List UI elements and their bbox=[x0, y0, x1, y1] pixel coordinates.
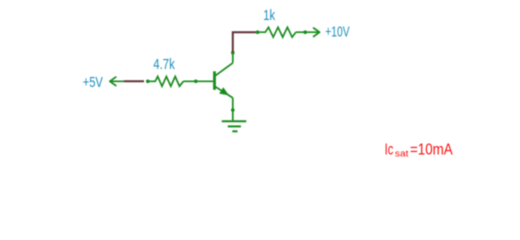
svg-text:=10mA: =10mA bbox=[410, 142, 453, 159]
svg-text:Ic: Ic bbox=[385, 141, 394, 158]
resistor R2 1k bbox=[256, 27, 296, 37]
annotation Icsat=10mA bbox=[385, 141, 453, 160]
transistor Q1 emitter arrow bbox=[219, 87, 229, 95]
power port +5V bbox=[110, 77, 124, 86]
svg-text:+10V: +10V bbox=[325, 23, 350, 41]
svg-text:+5V: +5V bbox=[83, 73, 103, 90]
node W5 junction dot bbox=[303, 30, 307, 34]
wire W3 (collector pin, green) bbox=[232, 52, 234, 63]
node collector pin dot bbox=[231, 51, 235, 55]
wire W4 (collector, maroon L) bbox=[233, 32, 256, 52]
svg-text:4.7k: 4.7k bbox=[153, 55, 175, 72]
wire W2 (resistor to base) bbox=[183, 80, 213, 82]
ground bbox=[222, 121, 247, 131]
node R2 left pin dot bbox=[256, 30, 260, 34]
transistor Q1 bbox=[215, 63, 233, 98]
svg-text:sat: sat bbox=[395, 149, 409, 160]
power port +10V bbox=[314, 28, 320, 37]
wire W5 (resistor to +10V arrow) bbox=[296, 31, 319, 33]
resistor R1 4.7k bbox=[146, 77, 183, 87]
node base junction dot bbox=[194, 80, 198, 84]
wire W6 (emitter to ground) bbox=[232, 98, 234, 121]
node base pin dot bbox=[146, 80, 150, 84]
svg-text:1k: 1k bbox=[263, 6, 275, 23]
wire W1 (base, maroon) bbox=[124, 80, 144, 82]
node emitter pin dot bbox=[231, 108, 235, 112]
